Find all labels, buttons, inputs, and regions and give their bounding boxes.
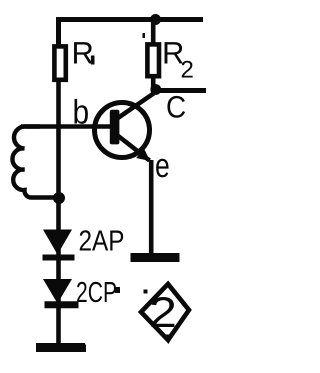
- svg-text:2: 2: [149, 289, 177, 337]
- svg-text:2: 2: [181, 57, 194, 84]
- resistor R2: [147, 44, 159, 76]
- node junction dot coil bottom: [53, 192, 65, 204]
- resistor R1: [54, 46, 65, 79]
- svg-text:C: C: [166, 90, 186, 125]
- inductor L1 coil: [12, 126, 58, 197]
- svg-text:2AP: 2AP: [79, 226, 125, 258]
- wire base lead: [21, 124, 112, 129]
- wire collector rail right: [155, 88, 206, 93]
- node junction dot top (R2 tap): [150, 14, 161, 25]
- figure number diamond: [141, 284, 189, 340]
- svg-text:e: e: [155, 147, 170, 185]
- transistor Q1 emitter arrowhead: [136, 148, 150, 161]
- transistor Q1 circle: [95, 103, 150, 158]
- wire left vertical (R1 bottom to diodes and ground): [56, 81, 61, 344]
- wire R2 bottom stub: [151, 77, 156, 90]
- svg-text:b: b: [73, 94, 90, 132]
- wire R2 top stub: [151, 20, 156, 45]
- diode VD2: [43, 279, 72, 304]
- wire emitter vertical: [149, 160, 154, 254]
- wire top supply rail: [59, 20, 204, 46]
- transistor Q1 base bar: [110, 110, 120, 145]
- ground left (diode chain): [36, 343, 85, 352]
- transistor Q1 emitter lead: [117, 135, 150, 161]
- svg-text:2CP: 2CP: [76, 277, 117, 309]
- speck near R2 top: [143, 33, 146, 38]
- node junction dot collector tap: [150, 84, 161, 95]
- transistor Q1 collector lead: [117, 91, 156, 120]
- speck left of diamond: [115, 287, 120, 293]
- speck inside diamond: [144, 290, 148, 294]
- diode VD1: [43, 230, 72, 255]
- ground right (emitter): [131, 253, 180, 262]
- svg-text:R: R: [72, 36, 94, 71]
